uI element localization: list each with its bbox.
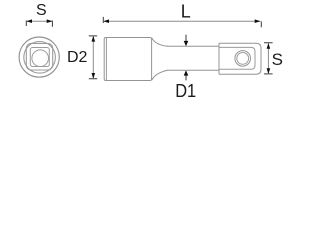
front view square drive hole outer edge: [26, 43, 52, 70]
dimension S (right) bottom arrowhead: [267, 68, 271, 74]
dimension L line: [103, 20, 260, 22]
side view sleeve mouth inner line: [105, 38, 107, 80]
dimension L left arrowhead: [103, 19, 109, 23]
side view taper bottom curve: [152, 70, 168, 80]
dimension D2 top arrowhead: [92, 36, 96, 42]
side view sleeve body: [104, 38, 151, 81]
dimension D2 extension ticks: [89, 36, 97, 79]
dimension D1 bottom arrowhead: [184, 70, 189, 75]
svg-text:D1: D1: [175, 81, 196, 101]
dimension D2 bottom arrowhead: [92, 73, 96, 79]
side view shaft bottom line: [167, 69, 220, 71]
dimension S (top left) extension ticks: [26, 20, 52, 26]
front view inner bore circle: [32, 50, 49, 67]
dimension D1 top arrow tail: [185, 35, 187, 41]
side view shaft top line: [167, 45, 220, 47]
front view outer circle (socket OD): [19, 37, 59, 77]
side view pin hole inner circle: [237, 53, 249, 65]
dimension S (right) extension ticks: [264, 43, 273, 74]
side view taper top curve: [152, 38, 168, 47]
dimension S (top left) line: [26, 20, 52, 22]
dimension S (top left) right arrowhead: [47, 19, 53, 23]
side view pin hole outer circle: [235, 51, 251, 67]
dimension D1 bottom arrow tail: [185, 76, 187, 81]
svg-text:S: S: [36, 2, 47, 19]
dimension D1 top arrowhead: [184, 41, 189, 46]
side view drive end outer outline: [219, 43, 261, 74]
dimension S (right) line: [267, 43, 269, 74]
side view step line at drive end: [218, 43, 220, 74]
dimension L extension ticks: [103, 17, 261, 27]
svg-text:S: S: [272, 50, 283, 69]
svg-text:L: L: [181, 2, 191, 22]
front view chamfer circle: [24, 42, 56, 74]
dimension L right arrowhead: [255, 19, 261, 23]
dimension S (right) top arrowhead: [267, 43, 271, 49]
front view square drive hole chamfer (inner square): [30, 48, 49, 67]
side view drive end chamfer inner outline: [219, 47, 255, 69]
dimension S (top left) left arrowhead: [26, 19, 32, 23]
dimension D2 line: [92, 36, 94, 79]
svg-text:D2: D2: [67, 49, 88, 66]
